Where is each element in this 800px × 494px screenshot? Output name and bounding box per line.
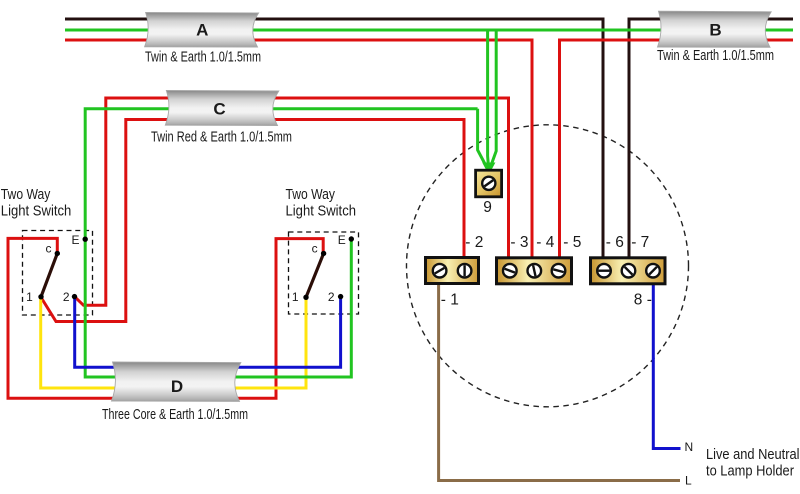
svg-text:c: c (312, 241, 318, 255)
svg-text:A: A (196, 20, 208, 39)
svg-text:to Lamp Holder: to Lamp Holder (706, 463, 794, 480)
svg-text:c: c (46, 242, 52, 256)
svg-text:Twin Red & Earth 1.0/1.5mm: Twin Red & Earth 1.0/1.5mm (151, 129, 292, 145)
svg-text:C: C (213, 99, 225, 118)
svg-text:- 2: - 2 (465, 234, 483, 251)
svg-text:- 7: - 7 (631, 234, 649, 251)
svg-text:E: E (338, 233, 346, 247)
svg-text:- 1: - 1 (441, 292, 459, 309)
svg-text:Two Way: Two Way (286, 186, 336, 203)
svg-text:- 4: - 4 (536, 234, 554, 251)
svg-text:Twin & Earth 1.0/1.5mm: Twin & Earth 1.0/1.5mm (145, 49, 261, 65)
svg-text:1: 1 (26, 290, 33, 304)
svg-text:Three Core & Earth 1.0/1.5mm: Three Core & Earth 1.0/1.5mm (102, 407, 248, 423)
svg-text:- 6: - 6 (606, 234, 624, 251)
svg-text:Twin & Earth 1.0/1.5mm: Twin & Earth 1.0/1.5mm (657, 48, 774, 64)
svg-text:2: 2 (63, 290, 70, 304)
svg-text:Live and Neutral: Live and Neutral (706, 446, 800, 463)
svg-text:- 3: - 3 (510, 234, 528, 251)
svg-text:- 5: - 5 (563, 234, 581, 251)
svg-text:9: 9 (483, 199, 492, 216)
svg-text:N: N (685, 440, 694, 454)
svg-text:Light Switch: Light Switch (286, 203, 357, 220)
svg-text:E: E (71, 233, 79, 247)
svg-text:Two Way: Two Way (1, 186, 51, 203)
svg-text:Light Switch: Light Switch (1, 203, 72, 220)
svg-text:8 -: 8 - (634, 292, 652, 309)
svg-text:2: 2 (328, 290, 335, 304)
svg-text:1: 1 (292, 290, 299, 304)
svg-text:D: D (171, 377, 183, 396)
svg-text:B: B (709, 21, 721, 40)
svg-text:L: L (685, 473, 692, 487)
